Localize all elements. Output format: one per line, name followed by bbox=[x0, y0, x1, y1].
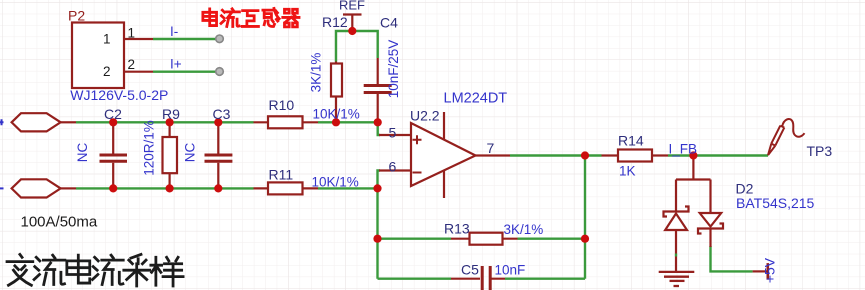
svg-text:3K/1%: 3K/1% bbox=[309, 53, 324, 93]
svg-text:1: 1 bbox=[128, 26, 136, 41]
svg-text:120R/1%: 120R/1% bbox=[142, 120, 157, 176]
svg-text:I_FB: I_FB bbox=[669, 142, 698, 157]
svg-text:U2.2: U2.2 bbox=[410, 108, 440, 124]
svg-text:C4: C4 bbox=[380, 15, 398, 31]
svg-text:7: 7 bbox=[487, 140, 495, 156]
svg-text:REF: REF bbox=[339, 0, 365, 13]
svg-text:1: 1 bbox=[103, 32, 111, 47]
svg-text:I-: I- bbox=[170, 24, 178, 39]
svg-text:TP3: TP3 bbox=[807, 143, 833, 159]
svg-text:NC: NC bbox=[75, 143, 90, 163]
svg-text:3K/1%: 3K/1% bbox=[504, 222, 544, 237]
svg-text:P2: P2 bbox=[68, 8, 85, 24]
svg-text:I+: I+ bbox=[170, 57, 182, 72]
svg-text:6: 6 bbox=[389, 159, 397, 175]
svg-text:100A/50ma: 100A/50ma bbox=[21, 214, 98, 231]
svg-text:NC: NC bbox=[183, 143, 198, 163]
svg-text:LM224DT: LM224DT bbox=[444, 91, 508, 107]
svg-text:10K/1%: 10K/1% bbox=[312, 175, 359, 190]
svg-text:C3: C3 bbox=[213, 106, 231, 122]
svg-text:R12: R12 bbox=[322, 14, 348, 30]
svg-text:10K/1%: 10K/1% bbox=[313, 107, 360, 122]
svg-text:WJ126V-5.0-2P: WJ126V-5.0-2P bbox=[70, 87, 168, 103]
svg-text:R14: R14 bbox=[618, 133, 644, 149]
svg-text:2: 2 bbox=[128, 57, 136, 72]
svg-text:5: 5 bbox=[389, 125, 397, 141]
svg-text:R11: R11 bbox=[269, 167, 294, 183]
svg-text:BAT54S,215: BAT54S,215 bbox=[736, 195, 815, 211]
svg-text:1K: 1K bbox=[619, 164, 636, 179]
svg-text:10nF/25V: 10nF/25V bbox=[386, 40, 401, 99]
svg-text:C5: C5 bbox=[461, 262, 479, 278]
svg-text:2: 2 bbox=[103, 64, 111, 79]
svg-text:C2: C2 bbox=[104, 106, 122, 122]
svg-text:R10: R10 bbox=[269, 97, 295, 113]
svg-text:R9: R9 bbox=[162, 106, 180, 122]
svg-text:R13: R13 bbox=[444, 221, 470, 237]
svg-text:+5V: +5V bbox=[762, 257, 778, 283]
svg-text:10nF: 10nF bbox=[495, 263, 526, 278]
